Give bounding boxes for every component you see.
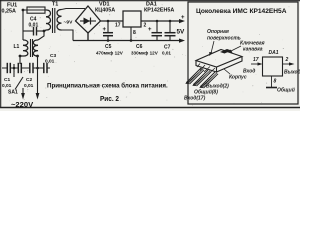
capacitor C4 [23, 30, 33, 32]
wire L1 left bottom riser [19, 56, 21, 64]
capacitor C5 plus [103, 27, 107, 33]
transformer T1 secondary winding [57, 9, 62, 30]
svg-text:Принципиальная схема блока пит: Принципиальная схема блока питания. [47, 83, 168, 90]
figure number [100, 96, 119, 103]
node C5 top [107, 20, 110, 23]
lead label in17 [184, 96, 206, 102]
svg-text:~220V: ~220V [11, 100, 34, 109]
wire pin8 to rail [130, 27, 132, 41]
svg-text:+: + [181, 15, 185, 21]
left mains arrow [21, 93, 25, 100]
capacitor C5 value [96, 44, 124, 56]
label mounting surface [207, 29, 241, 42]
output plus label [181, 15, 185, 21]
ground rail [73, 33, 183, 41]
lead label com8 [194, 89, 218, 96]
svg-text:17: 17 [253, 57, 259, 63]
node fuse-left junction [22, 9, 25, 12]
svg-text:2: 2 [144, 23, 147, 29]
capacitor C2 [29, 63, 31, 73]
choke L1 core [30, 39, 32, 57]
svg-text:330мкф 12V: 330мкф 12V [131, 50, 159, 56]
node C5 bottom [107, 39, 110, 42]
right panel title [196, 8, 287, 15]
svg-text:0,01: 0,01 [45, 59, 55, 65]
capacitor C6 plus [148, 27, 152, 33]
package body hatch [197, 64, 215, 74]
choke L1 label [14, 44, 20, 50]
capacitor C2 label [24, 77, 34, 89]
block output wire [283, 63, 290, 65]
capacitor C3 label [45, 53, 56, 65]
rail output arrow [179, 39, 185, 43]
output 5V label [177, 29, 186, 36]
bridge rectifier VD1 [76, 6, 101, 33]
wire bridge to DA1 input [101, 20, 124, 22]
svg-text:Рис. 2: Рис. 2 [100, 96, 119, 103]
label korpus [229, 75, 247, 81]
scan noise [4, 3, 290, 106]
block ground wire [271, 76, 273, 87]
svg-text:DA1: DA1 [269, 50, 279, 56]
capacitor C1 label [2, 77, 12, 89]
bottom rule [0, 107, 300, 109]
block diagram box [263, 57, 283, 76]
block pin17 label [253, 57, 259, 63]
transformer T1 primary winding [45, 10, 51, 31]
node C7 top [169, 20, 172, 23]
block pin8 label [274, 79, 277, 85]
svg-text:~9V: ~9V [64, 20, 74, 26]
svg-text:0,01: 0,01 [2, 83, 12, 89]
capacitor C1 [6, 63, 8, 73]
block pin2 label [285, 57, 289, 63]
node C6 top [156, 20, 159, 23]
arrow korpus [224, 69, 230, 74]
capacitor C4 label [29, 17, 39, 29]
svg-text:SA1: SA1 [8, 90, 18, 96]
wire riser to switch [13, 64, 15, 77]
capacitor row wire [2, 67, 50, 69]
svg-text:C3: C3 [50, 53, 56, 59]
block common label [277, 87, 295, 94]
package top face [196, 50, 242, 68]
block diagram DA1 label [269, 50, 279, 56]
capacitor C7 [169, 21, 171, 33]
svg-text:17: 17 [115, 23, 121, 29]
pin 8 [133, 30, 136, 36]
bridge rectifier VD1 label [95, 2, 115, 14]
block output label [284, 70, 301, 76]
svg-text:C5: C5 [105, 44, 112, 50]
wire left mains vertical [22, 10, 24, 40]
switch SA1 label [8, 90, 18, 96]
svg-text:Опорная: Опорная [207, 29, 229, 35]
package key notch [220, 49, 232, 54]
transformer T1 core [52, 8, 54, 33]
caption [47, 83, 168, 90]
svg-text:поверхность: поверхность [207, 36, 241, 42]
svg-text:C1: C1 [4, 77, 10, 83]
svg-text:0,25A: 0,25A [2, 9, 16, 15]
fuse FU1 [23, 9, 46, 11]
block ground bar [266, 87, 277, 89]
svg-text:5V: 5V [177, 29, 186, 36]
block input label [243, 69, 255, 75]
svg-text:Корпус: Корпус [229, 75, 247, 81]
svg-text:Общий(8): Общий(8) [194, 89, 218, 96]
node L1 right bottom [36, 55, 39, 58]
wire secondary bottom [62, 30, 74, 41]
svg-text:0,01: 0,01 [162, 51, 171, 56]
block input wire [251, 63, 258, 65]
fuse FU1 label [2, 3, 18, 15]
wire secondary top to bridge [62, 9, 86, 10]
lead 3 [201, 72, 219, 88]
switch SA1 lever [15, 77, 23, 90]
wire L1 right top to C4 node [38, 31, 44, 40]
capacitor C6 [156, 21, 158, 33]
svg-text:Цоколевка ИМС КР142ЕН5А: Цоколевка ИМС КР142ЕН5А [196, 8, 287, 15]
transformer T1 label [52, 2, 58, 8]
svg-text:+: + [148, 27, 152, 33]
svg-text:L1: L1 [14, 44, 20, 50]
arrow to groove [230, 46, 241, 52]
left mains wire [22, 88, 24, 94]
IC DA1 box [123, 11, 141, 27]
svg-text:0,01: 0,01 [24, 83, 34, 89]
right mains arrow [36, 93, 40, 100]
node L1 left bottom [19, 55, 22, 58]
package body side [196, 57, 242, 73]
lead 2 [194, 70, 212, 86]
wire right mains riser [37, 56, 39, 94]
node C4-primary junction [43, 30, 46, 33]
svg-text:C2: C2 [26, 77, 32, 83]
capacitor C7 value [162, 45, 171, 56]
svg-text:C6: C6 [136, 44, 143, 50]
svg-text:Вход: Вход [243, 69, 255, 75]
wire DA1 output [141, 20, 182, 22]
svg-text:2: 2 [285, 57, 289, 63]
svg-text:8: 8 [274, 79, 277, 85]
left border [0, 0, 2, 108]
choke L1 left winding [21, 40, 28, 56]
pin 2 [144, 23, 147, 29]
svg-text:T1: T1 [52, 2, 58, 8]
svg-text:Выход: Выход [284, 70, 300, 76]
capacitor pair 2 [17, 63, 19, 73]
svg-text:канавка: канавка [243, 47, 263, 53]
label ~9V [64, 20, 74, 26]
svg-text:КЦ405A: КЦ405A [95, 8, 115, 14]
capacitor C5 [107, 21, 109, 33]
capacitor C3 [43, 63, 45, 73]
IC DA1 labels [144, 2, 174, 14]
choke L1 right winding [33, 40, 38, 56]
label ~220V [11, 100, 34, 109]
pin 17 [115, 23, 121, 29]
lead label out2 [206, 84, 229, 90]
top border [0, 0, 300, 2]
svg-text:КР142ЕН5A: КР142ЕН5A [144, 8, 174, 14]
arrow to surface [211, 41, 214, 54]
label key groove [240, 41, 265, 53]
svg-text:Вход(17): Вход(17) [184, 96, 206, 102]
svg-text:Общий: Общий [277, 87, 295, 94]
lead 1 [187, 68, 205, 84]
diode inside bridge [80, 20, 96, 22]
capacitor C6 value [131, 44, 159, 56]
right panel frame [188, 2, 298, 104]
